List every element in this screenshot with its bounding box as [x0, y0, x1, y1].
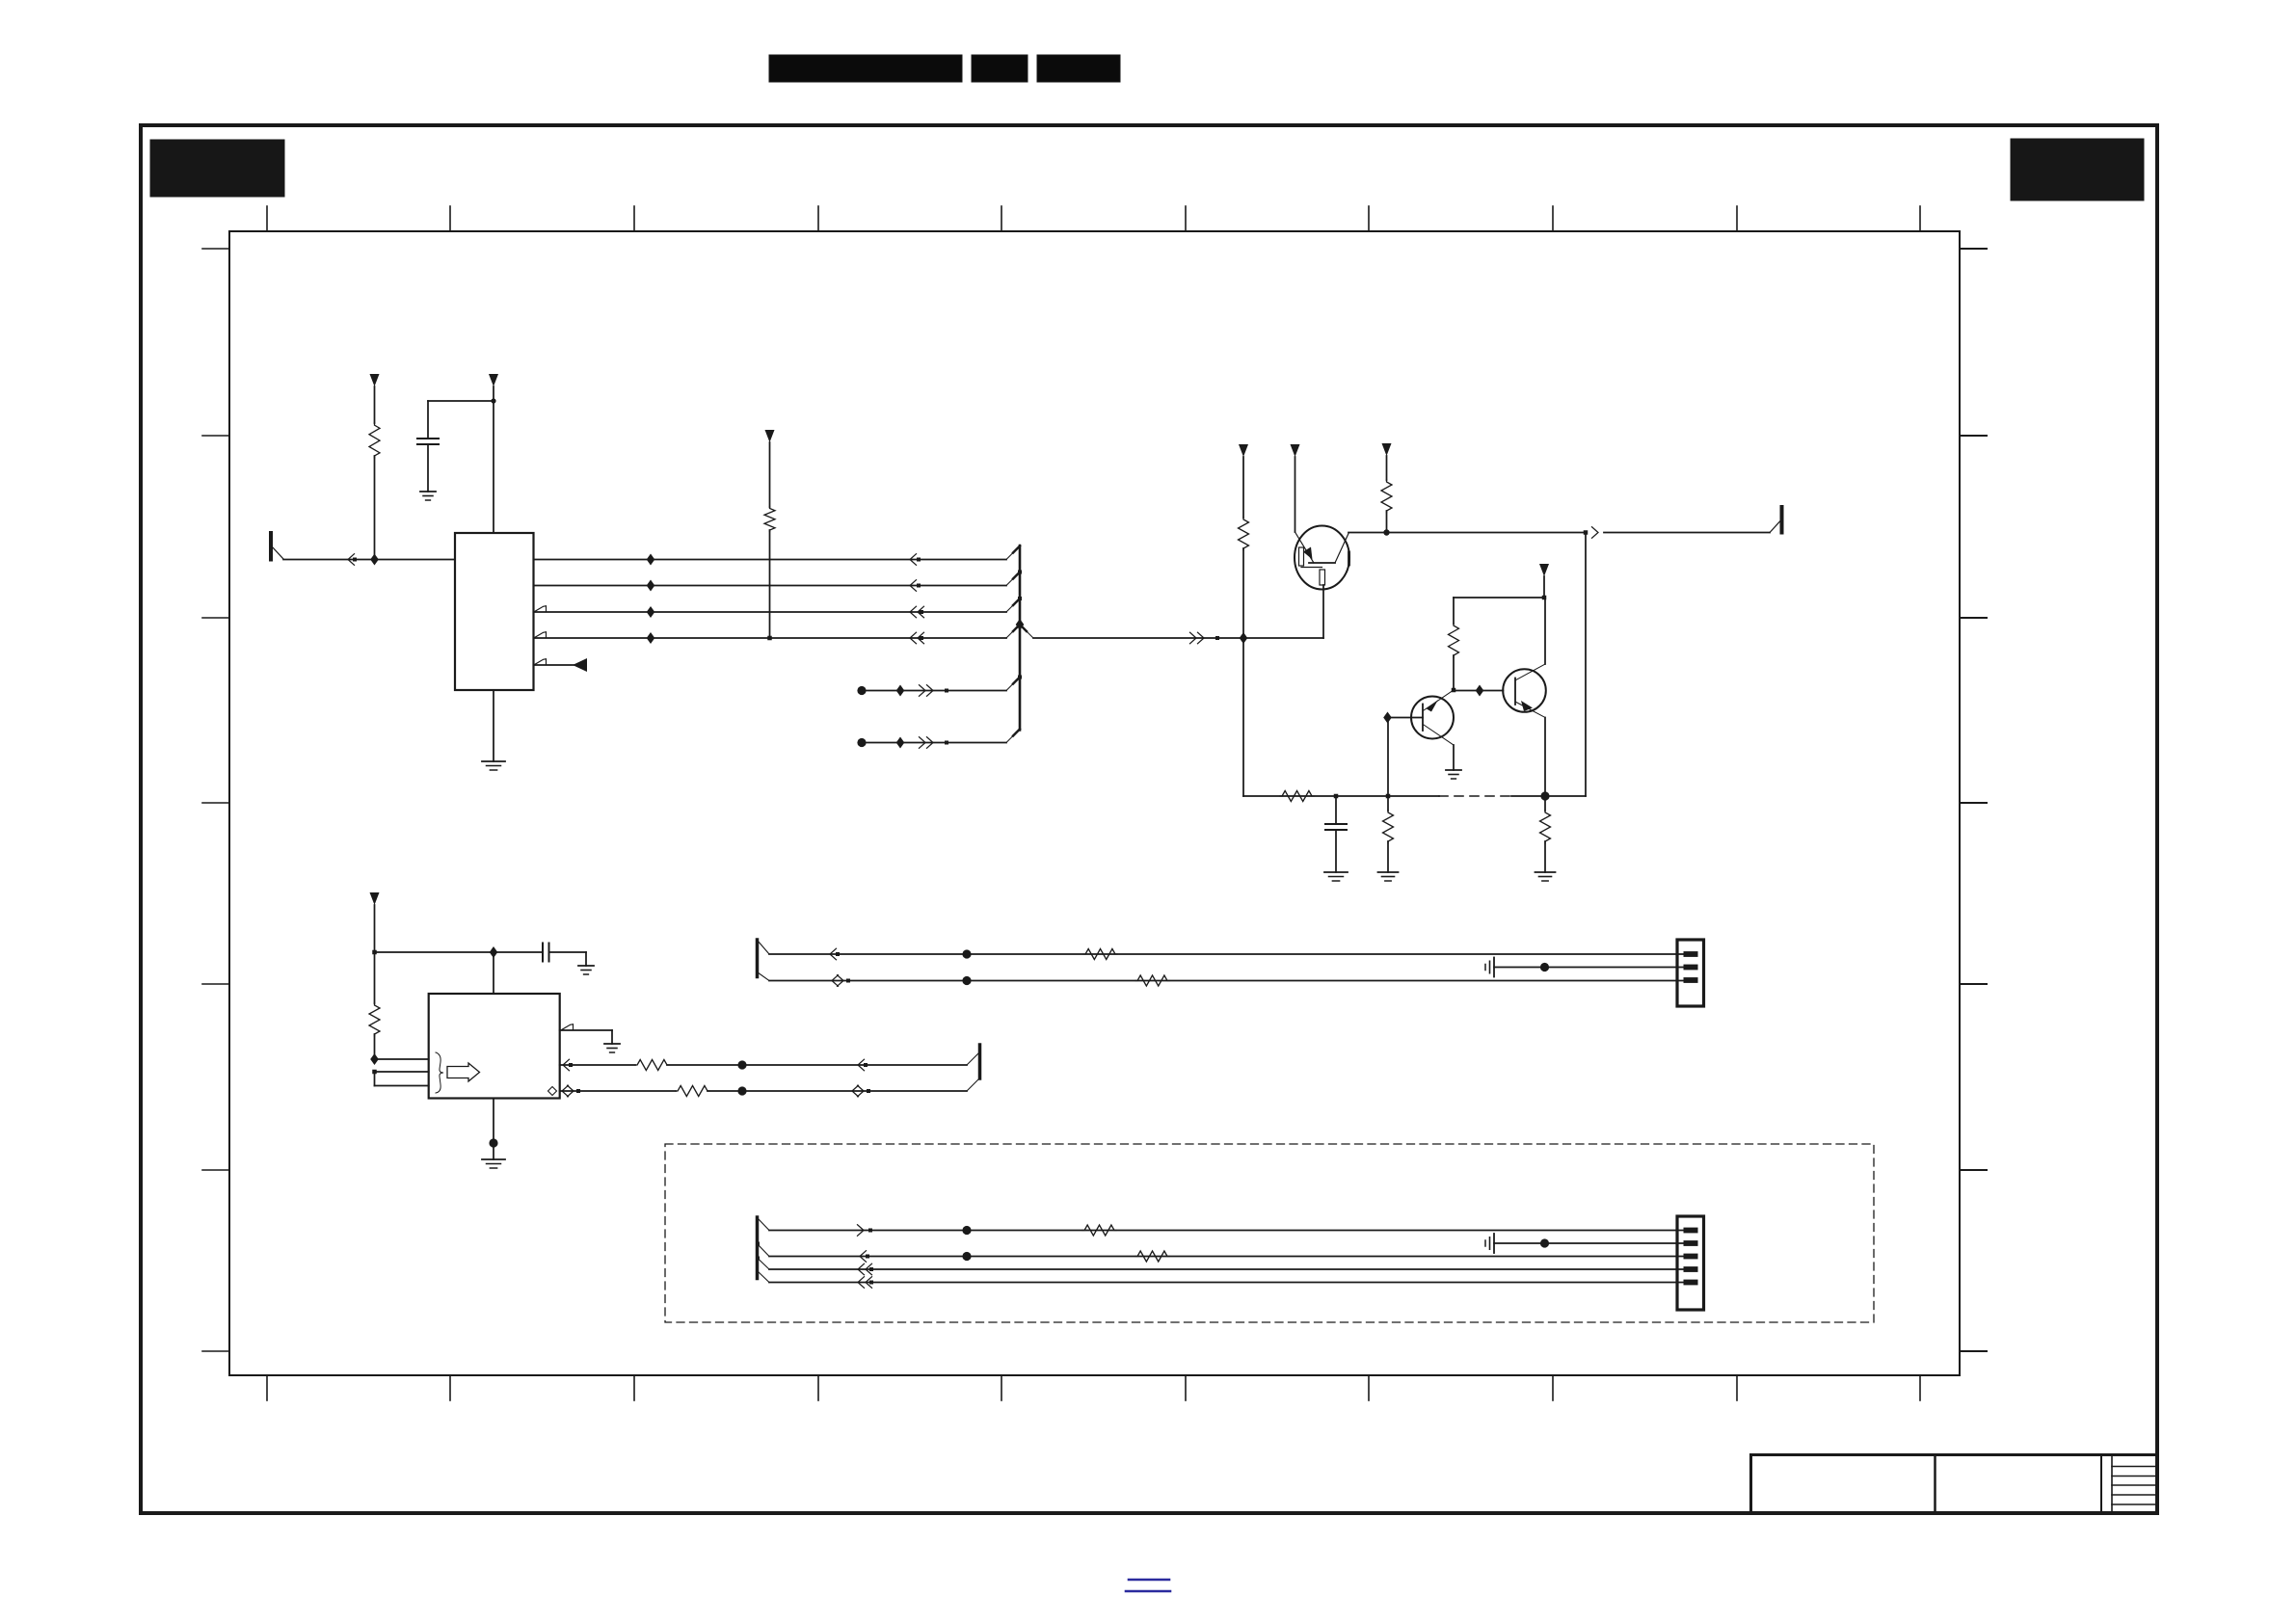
junction dot CN1-3 [962, 976, 971, 985]
junction R2/line4 [767, 636, 772, 641]
U2 pin B arrow [563, 1059, 573, 1071]
resistor R15 [1135, 1251, 1169, 1262]
ground under R7 [1535, 872, 1556, 881]
resistor R13 [676, 1086, 709, 1097]
wire Q1 base [1322, 585, 1324, 638]
net output wire [1033, 637, 1323, 639]
wire R5 top rail [1454, 597, 1544, 599]
cable bracket 2 [756, 1217, 760, 1279]
bus entry diag stub6 [1006, 730, 1020, 743]
bus vertical [1019, 545, 1022, 731]
power symbol V3 [765, 430, 775, 507]
title block [1751, 1455, 2158, 1514]
title redaction bar 2 [972, 55, 1028, 82]
wire C2 to ground [549, 952, 587, 966]
transistor Q3 [1503, 664, 1546, 718]
ground at U2 pin A [604, 1044, 620, 1052]
junction square U2 in2 [372, 1070, 377, 1075]
wire Q1 collector rail [1348, 532, 1586, 534]
resistor R11 [1135, 975, 1169, 986]
U1 pin flag line5 [535, 659, 547, 665]
junction diamond line3 [647, 606, 655, 618]
bracket lead C [967, 1078, 980, 1092]
resistor R4 [1381, 480, 1392, 513]
wire rail down right [1585, 533, 1587, 797]
net wire CN2-5 [769, 1282, 1685, 1284]
footer blue link line 2 [1126, 1590, 1170, 1593]
resistor R14 [1082, 1225, 1116, 1236]
input arrowhead on pin5 [573, 658, 587, 672]
U2 pin flag A [562, 1024, 574, 1030]
wire Q3 top to V7 rail [1544, 598, 1546, 664]
bus entry diag line1 [1006, 546, 1020, 560]
junction node B [1240, 632, 1248, 644]
wire node B down [1242, 638, 1244, 796]
arrow CN2-5 [858, 1277, 873, 1289]
junction Q3 base diamond [1476, 685, 1484, 697]
wire Q2 emitter down [1453, 745, 1455, 770]
stub wire 5 with terminal [857, 686, 1006, 695]
U1 output wire 4 [534, 637, 1007, 639]
resistor R7 [1540, 811, 1551, 843]
ground under R6 [1378, 872, 1399, 881]
power symbol V6 [1382, 443, 1392, 480]
wire R7 stem [1544, 796, 1546, 811]
bracket1 lead 2 [758, 972, 769, 981]
stub wire 6 with terminal [857, 738, 1006, 747]
arrow to output pin [1592, 527, 1599, 539]
bracket2 lead 2 [756, 1242, 769, 1257]
wire node C to Q3 base [1454, 690, 1504, 692]
bottom net wire right [1511, 795, 1586, 797]
junction diamond U2 top [490, 946, 498, 958]
junction V7 [1542, 596, 1547, 600]
bus entry diag line3 [1006, 597, 1022, 612]
bracket lead B [967, 1053, 979, 1066]
wire C3 to ground [1335, 830, 1337, 872]
wire R6 stem [1387, 796, 1389, 811]
resistor R12 [635, 1060, 669, 1071]
transistor Q2 [1411, 690, 1454, 745]
arrow line2 [910, 580, 921, 592]
wire U2 input 2 [375, 1071, 429, 1073]
resistor R10 [1083, 949, 1117, 960]
wire R1 to node A [374, 456, 376, 560]
option dashed box [665, 1144, 1874, 1322]
bracket2 lead 4 [758, 1271, 769, 1283]
capacitor C1 [417, 439, 439, 444]
bracket1 lead 1 [758, 941, 769, 954]
U2 pin B wire 2 [667, 1064, 967, 1066]
arrow on output wire [1190, 632, 1220, 644]
connector pin P1 (left) [271, 533, 283, 560]
bus exit diag to output [1020, 625, 1033, 638]
U1 output wire 3 [534, 611, 1007, 613]
IC U1 [455, 533, 534, 690]
arrow line1 [910, 554, 921, 566]
wire V8 down [374, 952, 376, 1003]
junction diamond stub5 [896, 685, 905, 697]
ground under Q2 [1446, 770, 1461, 779]
capacitor C3 [1325, 824, 1347, 830]
connector pin P2 (right) [1780, 507, 1784, 533]
power symbol V5 [1291, 444, 1300, 532]
net wire CN2-1 [769, 1230, 1685, 1232]
U2 pin A wire [560, 1030, 612, 1044]
U1 stub wire 5 [534, 664, 575, 666]
resistor R1 [369, 423, 380, 458]
connector CN1 [1677, 940, 1704, 1006]
wire U2 ground pin [493, 1099, 494, 1160]
title redaction bar 1 [769, 55, 962, 82]
transistor Q1 [1295, 526, 1349, 590]
wire R5 top [1453, 598, 1455, 624]
resistor R5 [1449, 624, 1459, 657]
resistor R9 [1280, 791, 1314, 802]
wire U2 input 3 [375, 1072, 429, 1086]
bus entry diag line2 [1006, 571, 1022, 586]
power symbol V2 [489, 374, 498, 401]
title redaction bar 3 [1037, 55, 1120, 82]
resistor R2 [764, 507, 775, 532]
ground feed CN2-2 [1485, 1234, 1685, 1253]
junction Q2 base diamond [1383, 712, 1392, 724]
frame column ticks bottom [267, 1375, 1920, 1400]
arrow CN1-3 [832, 975, 850, 987]
bracket2 lead 1 [758, 1218, 769, 1231]
U2 pin C glyph [548, 1087, 557, 1096]
power symbol V4 [1239, 444, 1248, 518]
junction C3 node [1334, 794, 1339, 799]
arrow CN2-3 [860, 1251, 869, 1263]
junction diamond line2 [647, 580, 655, 592]
power symbol V8 [370, 892, 380, 952]
bracket2 lead 3 [756, 1257, 769, 1270]
junction rail corner [1584, 530, 1589, 535]
top-right redaction box [2011, 139, 2144, 200]
arrow mid B [858, 1059, 868, 1071]
arrow line3 [910, 606, 924, 618]
frame row ticks left [202, 249, 229, 1351]
outer sheet frame [141, 125, 2157, 1513]
U2 input brace [436, 1052, 443, 1093]
ground under C3 [1324, 872, 1348, 881]
junction dot C [737, 1086, 746, 1095]
junction R6 node [1386, 794, 1391, 799]
wire C1 to ground [427, 444, 429, 492]
net wire CN1-1 [769, 953, 1685, 955]
U2 pin B wire [560, 1064, 635, 1066]
junction U2 gnd terminal [489, 1138, 497, 1147]
arrow CN2-1 [858, 1225, 873, 1237]
junction node C [1452, 688, 1456, 693]
net wire CN1-3 [769, 980, 1685, 982]
capacitor C2 [543, 944, 549, 962]
junction dot CN2-1 [962, 1226, 971, 1235]
U2 pin C arrow [562, 1085, 580, 1097]
frame row ticks right [1960, 249, 1987, 1351]
ground under U1 [482, 761, 505, 770]
inner schematic frame [229, 231, 1960, 1375]
junction dot B [737, 1060, 746, 1069]
junction diamond stub6 [896, 737, 905, 749]
arrow line4 [910, 632, 924, 644]
resistor R6 [1383, 811, 1394, 843]
ground feed CN1-2 [1485, 958, 1685, 977]
bottom net dashed segment [1439, 795, 1511, 797]
wire Q2 base [1388, 717, 1424, 719]
bottom net wire [1243, 795, 1439, 797]
resistor R3 [1239, 518, 1249, 550]
U2 pin C wire 2 [707, 1090, 967, 1092]
junction V6 node [1383, 529, 1389, 535]
bus entry diag stub5 [1006, 676, 1022, 691]
junction dot CN2-2 [1540, 1238, 1549, 1247]
U2 pin C wire [560, 1090, 676, 1092]
wire rail to pin P2 [1604, 521, 1780, 533]
wire U2 vcc [493, 952, 494, 994]
arrow CN2-4 [858, 1264, 873, 1275]
top-left redaction box [150, 140, 284, 197]
wire R8 to diamond [374, 1034, 376, 1059]
junction dot CN2-3 [962, 1252, 971, 1261]
ground under C1 [420, 492, 436, 500]
junction V8 tee [372, 950, 377, 955]
power symbol V7 [1539, 564, 1549, 598]
U1 pin flag line4 [535, 632, 547, 638]
wire R2 to line4 [769, 530, 771, 638]
arrow on U1 input wire [348, 554, 357, 566]
junction V2 branch [491, 398, 495, 533]
wire to C1 [428, 401, 494, 439]
ground right of C2 [578, 966, 594, 974]
U1 pin flag line3 [535, 606, 547, 612]
wire V8 to C2 [375, 951, 544, 953]
ground under U2 [482, 1159, 505, 1168]
wire U2 input 1 [375, 1058, 429, 1060]
frame column ticks top [267, 206, 1920, 231]
junction dot CN1-1 [962, 949, 971, 958]
U1 output wire 2 [534, 585, 1007, 587]
U1 output wire 1 [534, 559, 1007, 561]
bus entry diag line4 [1006, 619, 1024, 638]
wire R6 to ground [1387, 841, 1389, 872]
cable bracket right [978, 1045, 982, 1078]
wire R3 to node B [1242, 548, 1244, 638]
junction diamond U2 in1 [370, 1053, 379, 1065]
wire P1 to IC U1 [283, 559, 455, 561]
wire R4 to rail [1386, 511, 1388, 533]
wire C3 stem [1335, 796, 1337, 824]
node A junction [370, 554, 379, 566]
power symbol V1 [370, 374, 380, 423]
connector CN2 [1677, 1216, 1704, 1310]
U2 signal arrow glyph [447, 1063, 480, 1081]
junction node D [1540, 791, 1549, 800]
junction diamond line1 [647, 554, 655, 566]
IC U2 [429, 994, 560, 1099]
wire R5 bottom [1453, 655, 1455, 690]
junction diamond line4 [647, 632, 655, 644]
wire Q2 base down [1387, 718, 1389, 797]
cable bracket 1 [756, 940, 760, 977]
arrow mid C [852, 1085, 870, 1097]
arrow stub5 [920, 685, 949, 697]
net wire CN2-4 [769, 1268, 1685, 1270]
wire Q3 bottom [1544, 718, 1546, 797]
resistor R8 [369, 1003, 380, 1036]
footer blue link line 1 [1129, 1579, 1169, 1582]
junction dot CN1-2 [1540, 963, 1549, 971]
wire U1 ground pin [493, 690, 494, 761]
arrow stub6 [920, 737, 949, 749]
arrow CN1-1 [830, 948, 840, 960]
wire R7 to ground [1544, 841, 1546, 872]
net wire CN2-3 [769, 1256, 1685, 1258]
